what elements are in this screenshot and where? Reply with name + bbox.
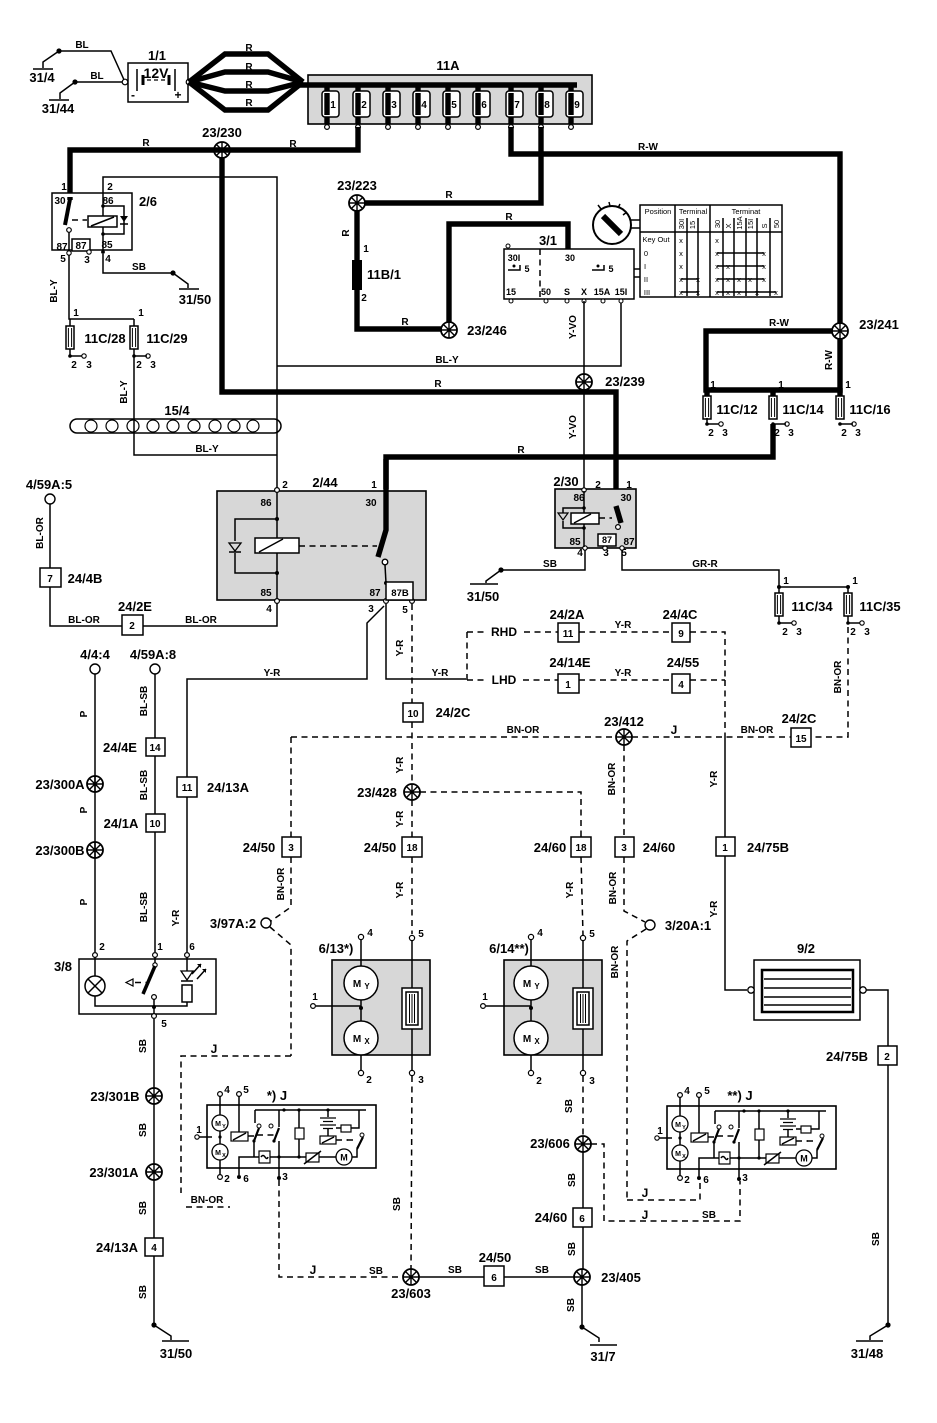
connector 24/75B 1: [716, 837, 789, 856]
svg-text:R-W: R-W: [638, 142, 659, 153]
svg-text:2/6: 2/6: [139, 194, 157, 209]
svg-text:RHD: RHD: [491, 625, 517, 639]
svg-text:31/44: 31/44: [42, 101, 75, 116]
svg-text:1: 1: [138, 308, 144, 319]
svg-text:x: x: [737, 275, 741, 284]
svg-text:23/300B: 23/300B: [35, 843, 84, 858]
svg-text:4: 4: [105, 254, 111, 265]
wire BL-OR to 24/4B: [50, 587, 122, 626]
svg-text:30: 30: [365, 498, 377, 509]
svg-text:Y-R: Y-R: [565, 881, 576, 898]
connector 24/13A 11: [177, 777, 250, 797]
svg-text:1: 1: [722, 843, 728, 854]
heated rear window 9/2: [748, 941, 866, 1020]
svg-text:1: 1: [845, 380, 851, 391]
svg-text:23/230: 23/230: [202, 125, 242, 140]
svg-text:23/428: 23/428: [357, 785, 397, 800]
ground 31/4: [29, 48, 61, 85]
connector 24/60 18: [534, 837, 591, 857]
svg-text:23/301B: 23/301B: [90, 1089, 139, 1104]
svg-text:J: J: [211, 1042, 218, 1056]
svg-text:23/603: 23/603: [391, 1286, 431, 1301]
svg-text:M: M: [523, 979, 531, 990]
node 23/241: [832, 323, 848, 339]
svg-text:3: 3: [788, 428, 794, 439]
svg-text:2: 2: [107, 182, 113, 193]
svg-text:6: 6: [491, 1273, 497, 1284]
svg-text:x: x: [715, 262, 719, 271]
node 23/230: [214, 142, 230, 158]
svg-text:87: 87: [623, 537, 635, 548]
connector 24/75B 2: [826, 1046, 897, 1065]
svg-text:24/60: 24/60: [643, 840, 676, 855]
svg-text:5: 5: [704, 1086, 710, 1097]
wire SB 23/603 to 24/50 6: [419, 1276, 484, 1278]
connector 24/13A 4: [96, 1238, 163, 1256]
mirror motor 6/14: [481, 928, 602, 1087]
svg-text:x: x: [679, 236, 683, 245]
svg-text:SB: SB: [702, 1210, 716, 1221]
svg-text:SB: SB: [448, 1265, 462, 1276]
svg-text:3: 3: [855, 428, 861, 439]
svg-text:31/50: 31/50: [467, 589, 500, 604]
svg-text:Key Out: Key Out: [642, 235, 670, 244]
svg-text:R: R: [245, 43, 253, 54]
svg-text:7: 7: [47, 574, 53, 585]
wire GR-R from 2/30 pin 5: [622, 550, 779, 587]
svg-text:SB: SB: [138, 1201, 149, 1215]
node 23/301A: [146, 1164, 162, 1180]
wire SB to 31/48: [887, 1065, 889, 1325]
wire SB 23/606 to 24/60 6: [582, 1152, 584, 1208]
svg-text:4: 4: [684, 1086, 690, 1097]
LHD dashed row: [467, 632, 558, 680]
wire SB to ground: [153, 1256, 155, 1325]
connector 24/2C 15: [782, 711, 817, 747]
svg-text:x: x: [696, 275, 700, 284]
terminal 3/97A:2: [261, 918, 271, 928]
ground 31/50 mid: [467, 567, 504, 604]
svg-text:24/55: 24/55: [667, 655, 700, 670]
svg-text:15/4: 15/4: [164, 403, 190, 418]
svg-text:SB: SB: [138, 1285, 149, 1299]
svg-text:15I: 15I: [615, 287, 628, 297]
connector 24/2E: [118, 599, 152, 635]
svg-text:BN-OR: BN-OR: [507, 725, 541, 736]
svg-text:BL-Y: BL-Y: [119, 380, 130, 404]
ignition key symbol: [593, 202, 640, 244]
svg-text:5: 5: [589, 929, 595, 940]
svg-text:1: 1: [157, 942, 163, 953]
wire R from 11B/1 to 23/246: [357, 288, 442, 329]
svg-text:3: 3: [391, 100, 397, 111]
fuse 11C/28: [66, 308, 126, 371]
terminal 4/59A:5: [45, 494, 55, 504]
dashed J from 23/606 to **)J pin 3: [591, 1144, 740, 1221]
wire R from 23/230 down to relay 2/30: [222, 157, 616, 506]
fuse 1: [322, 85, 339, 129]
svg-text:Y-R: Y-R: [264, 668, 281, 679]
svg-text:SB: SB: [392, 1197, 403, 1211]
svg-text:31/50: 31/50: [160, 1346, 193, 1361]
connector 24/60 6: [535, 1208, 592, 1227]
svg-text:23/223: 23/223: [337, 178, 377, 193]
svg-text:12V: 12V: [144, 65, 170, 81]
svg-text:30I: 30I: [508, 253, 521, 263]
svg-text:I: I: [644, 262, 646, 271]
wire Y-VO 23/239 to 2/30 pin 86: [583, 390, 585, 489]
svg-text:15: 15: [795, 734, 807, 745]
svg-text:1: 1: [710, 380, 716, 391]
svg-text:M: M: [353, 979, 361, 990]
connector 24/2A: [550, 607, 585, 642]
terminal 4/4:4: [90, 664, 100, 674]
wire R from 11C/14 to 2/44 pin 30: [386, 424, 773, 489]
fuse 2: [353, 85, 370, 129]
svg-text:2/30: 2/30: [553, 474, 578, 489]
battery 1/1: [122, 48, 192, 102]
wire SB: [153, 1180, 155, 1238]
svg-text:24/2A: 24/2A: [550, 607, 585, 622]
svg-text:4: 4: [678, 680, 684, 691]
svg-text:SB: SB: [567, 1242, 578, 1256]
svg-text:24/50: 24/50: [243, 840, 276, 855]
ground 31/50 top: [170, 270, 211, 307]
svg-text:R: R: [245, 80, 253, 91]
connector 24/50 6: [479, 1250, 512, 1286]
dashed J from BN-OR col to **)J pin 6: [627, 1181, 700, 1200]
node 23/412: [616, 729, 632, 745]
svg-text:BL-SB: BL-SB: [139, 770, 150, 801]
svg-text:11: 11: [563, 629, 574, 640]
svg-text:30: 30: [620, 493, 632, 504]
svg-text:4: 4: [151, 1243, 157, 1254]
svg-text:II: II: [644, 275, 648, 284]
svg-text:BL-Y: BL-Y: [435, 355, 459, 366]
svg-text:SB: SB: [567, 1173, 578, 1187]
svg-text:1: 1: [371, 480, 377, 491]
svg-text:11B/1: 11B/1: [367, 267, 401, 282]
svg-text:BL-SB: BL-SB: [139, 892, 150, 923]
svg-text:M: M: [523, 1034, 531, 1045]
svg-text:87: 87: [602, 535, 612, 545]
svg-text:1: 1: [565, 680, 571, 691]
svg-text:2: 2: [282, 480, 288, 491]
wire BL-OR to 4/59A:5: [49, 504, 51, 568]
svg-text:SB: SB: [566, 1298, 577, 1312]
dashed Y-R to 6/14 pin 5: [581, 857, 583, 935]
svg-text:BN-OR: BN-OR: [191, 1195, 225, 1206]
svg-text:5: 5: [418, 929, 424, 940]
svg-text:14: 14: [149, 743, 161, 754]
svg-text:R: R: [245, 62, 253, 73]
svg-text:24/13A: 24/13A: [207, 780, 250, 795]
svg-text:3: 3: [796, 627, 802, 638]
wire R-W 23/241 to 11C fuses: [706, 331, 840, 390]
svg-text:x: x: [762, 262, 766, 271]
3/8 switch: [126, 957, 157, 1016]
dashed SB from 6/13 pin 3 to 23/603: [411, 1076, 412, 1269]
svg-text:Y-R: Y-R: [615, 620, 632, 631]
relay 2/30: [553, 474, 636, 559]
svg-text:24/13A: 24/13A: [96, 1240, 139, 1255]
svg-text:3: 3: [722, 428, 728, 439]
connector 24/60 3: [615, 837, 675, 857]
svg-text:x: x: [774, 288, 778, 297]
svg-text:SB: SB: [535, 1265, 549, 1276]
connector strip 15/4: [70, 403, 281, 433]
dashed SB from 6/14 pin 3 to 23/606: [582, 1076, 584, 1136]
dashed BN-OR col to 24/50 3: [290, 737, 292, 837]
svg-text:SB: SB: [369, 1266, 383, 1277]
svg-text:2: 2: [224, 1174, 230, 1185]
ground 31/44: [42, 79, 78, 116]
3/8 pin 5: [152, 1014, 157, 1019]
svg-text:x: x: [679, 275, 683, 284]
dashed BN-OR to 3/20A:1: [624, 857, 645, 922]
fuse 11C/14: [769, 388, 824, 439]
relay 2/30 coil: [558, 491, 612, 547]
svg-text:10: 10: [149, 819, 161, 830]
svg-text:BL-OR: BL-OR: [35, 516, 46, 548]
svg-text:24/4B: 24/4B: [68, 571, 103, 586]
svg-text:1: 1: [783, 576, 789, 587]
svg-text:24/75B: 24/75B: [747, 840, 789, 855]
svg-text:R: R: [517, 445, 525, 456]
svg-text:23/300A: 23/300A: [35, 777, 85, 792]
wire SB from 2/30 pin 4: [501, 550, 585, 570]
svg-text:x: x: [679, 288, 683, 297]
svg-text:x: x: [715, 275, 719, 284]
svg-text:31/48: 31/48: [851, 1346, 884, 1361]
svg-text:R-W: R-W: [769, 318, 790, 329]
svg-text:85: 85: [569, 537, 581, 548]
dashed BN-OR to 3/97A:2: [271, 857, 291, 921]
relay 2/6: [52, 182, 157, 253]
svg-text:24/50: 24/50: [479, 1250, 512, 1265]
svg-text:x: x: [715, 249, 719, 258]
wire R from 23/246 to ignition switch 30: [449, 224, 568, 323]
svg-text:2: 2: [366, 1075, 372, 1086]
svg-text:23/246: 23/246: [467, 323, 507, 338]
svg-text:24/60: 24/60: [534, 840, 567, 855]
svg-text:Y-R: Y-R: [395, 881, 406, 898]
relay 2/44: [217, 475, 426, 616]
svg-text:2: 2: [71, 360, 77, 371]
svg-text:BL: BL: [90, 71, 103, 82]
wire from 9/2 to 24/75B 2: [866, 990, 888, 1046]
dashed J wire near 3/8: [181, 1056, 291, 1193]
svg-text:1: 1: [852, 576, 858, 587]
svg-text:X: X: [724, 223, 733, 228]
wire SB 23/405 to ground 31/7: [581, 1285, 583, 1327]
svg-text:11C/29: 11C/29: [146, 331, 187, 346]
wire Y-VO ignition X to 23/239: [583, 301, 585, 375]
svg-text:5: 5: [524, 264, 529, 274]
svg-text:3: 3: [86, 360, 92, 371]
svg-text:23/301A: 23/301A: [89, 1165, 139, 1180]
svg-text:III: III: [644, 288, 650, 297]
svg-text:6: 6: [579, 1214, 585, 1225]
svg-text:3/97A:2: 3/97A:2: [210, 916, 256, 931]
svg-text:11C/28: 11C/28: [84, 331, 125, 346]
svg-text:1: 1: [482, 992, 488, 1003]
svg-text:x: x: [726, 275, 730, 284]
fuse 11C/12: [703, 388, 758, 439]
svg-text:x: x: [679, 249, 683, 258]
svg-text:4/59A:8: 4/59A:8: [130, 647, 176, 662]
relay 2/6 coil: [88, 193, 128, 251]
ground 31/7: [579, 1324, 617, 1364]
svg-text:SB: SB: [132, 262, 146, 273]
svg-text:6/14**): 6/14**): [489, 941, 529, 956]
svg-text:5: 5: [608, 264, 613, 274]
svg-text:0: 0: [644, 249, 648, 258]
relay 2/44 coil: [229, 492, 377, 599]
svg-text:2: 2: [850, 627, 856, 638]
svg-text:31/7: 31/7: [590, 1349, 615, 1364]
svg-text:1: 1: [626, 480, 632, 491]
svg-text:BN-OR: BN-OR: [833, 660, 844, 694]
wire Y-R RHD: [579, 631, 672, 633]
svg-text:3: 3: [621, 843, 627, 854]
svg-text:SB: SB: [871, 1232, 882, 1246]
wire Y-R from 2/44 pin 3 left branch: [187, 606, 384, 777]
svg-text:-: -: [131, 88, 135, 102]
wire R-W from fuse 7 to 23/241: [511, 127, 840, 324]
svg-text:5: 5: [243, 1085, 249, 1096]
svg-text:87B: 87B: [391, 588, 409, 599]
relay 2/6 87 sub-box: [60, 239, 111, 266]
svg-text:R: R: [341, 229, 352, 237]
ground 31/48: [851, 1322, 891, 1361]
svg-text:9/2: 9/2: [797, 941, 815, 956]
wire BL-SB column: [154, 674, 156, 952]
svg-text:2: 2: [361, 100, 367, 111]
svg-text:9: 9: [678, 629, 684, 640]
svg-text:2: 2: [129, 621, 135, 632]
node 23/603: [403, 1269, 419, 1285]
svg-text:x: x: [762, 275, 766, 284]
svg-text:3: 3: [418, 1075, 424, 1086]
svg-text:3: 3: [742, 1173, 748, 1184]
svg-text:24/60: 24/60: [535, 1210, 568, 1225]
svg-text:11C/16: 11C/16: [849, 402, 890, 417]
svg-text:1: 1: [657, 1126, 663, 1137]
node 23/606: [575, 1136, 591, 1152]
mirror unit *) J: [195, 1085, 376, 1185]
svg-text:x: x: [696, 288, 700, 297]
node 23/300A: [87, 776, 103, 792]
svg-text:3/8: 3/8: [54, 959, 72, 974]
fuse 5: [443, 85, 460, 129]
svg-text:2: 2: [782, 627, 788, 638]
svg-text:BL-OR: BL-OR: [185, 615, 217, 626]
svg-text:R: R: [245, 98, 253, 109]
svg-text:11C/35: 11C/35: [859, 599, 900, 614]
svg-text:Terminal: Terminal: [679, 207, 708, 216]
svg-text:P: P: [79, 710, 90, 717]
svg-text:J: J: [310, 1263, 317, 1277]
svg-text:M: M: [353, 1034, 361, 1045]
3/8 lamp: [85, 957, 154, 1006]
svg-text:X: X: [534, 1037, 540, 1046]
svg-text:11A: 11A: [436, 58, 460, 73]
svg-text:x: x: [726, 288, 730, 297]
svg-text:3: 3: [368, 604, 374, 615]
svg-text:2/44: 2/44: [312, 475, 338, 490]
switch unit 3/8: [54, 942, 216, 1014]
svg-text:*) J: *) J: [267, 1088, 287, 1103]
fuse 4: [413, 85, 430, 129]
svg-text:Y: Y: [534, 982, 540, 991]
dashed BN-OR 23/412 to 24/2C 15: [632, 736, 791, 738]
svg-text:11C/14: 11C/14: [782, 402, 824, 417]
fuse 11C/35: [844, 587, 901, 638]
svg-text:5: 5: [60, 254, 66, 265]
svg-text:X: X: [581, 287, 587, 297]
svg-text:6: 6: [703, 1175, 709, 1186]
svg-text:Y-R: Y-R: [709, 900, 720, 917]
svg-text:1: 1: [73, 308, 79, 319]
dashed Y-R to 6/13 pin 5: [411, 857, 413, 934]
svg-text:R: R: [401, 317, 409, 328]
svg-text:BL-Y: BL-Y: [195, 444, 219, 455]
svg-text:8: 8: [544, 100, 550, 111]
node 23/223: [349, 195, 365, 211]
node 23/405: [574, 1269, 590, 1285]
wire BL-Y from 2/6 pin 5: [69, 255, 134, 319]
svg-text:30I: 30I: [677, 219, 686, 229]
svg-text:1: 1: [61, 182, 67, 193]
wire P column: [94, 674, 96, 952]
svg-text:x: x: [715, 236, 719, 245]
node 23/428: [404, 784, 420, 800]
svg-text:S: S: [760, 223, 769, 228]
ground 31/50 bottom: [151, 1322, 192, 1361]
svg-text:6/13*): 6/13*): [319, 941, 354, 956]
svg-text:15I: 15I: [746, 219, 755, 229]
svg-text:4: 4: [266, 604, 272, 615]
svg-text:x: x: [715, 288, 719, 297]
svg-text:BL-OR: BL-OR: [68, 615, 100, 626]
svg-text:15: 15: [688, 221, 697, 229]
svg-text:J: J: [642, 1186, 649, 1200]
svg-text:24/2C: 24/2C: [436, 705, 471, 720]
svg-text:11: 11: [182, 783, 193, 794]
svg-text:x: x: [737, 288, 741, 297]
relay 2/30 87 sub-box: [598, 534, 616, 546]
relay 2/44 87B sub-box: [386, 582, 413, 600]
dashed J from *)J pin 3 to 23/603: [279, 1180, 403, 1277]
svg-text:24/75B: 24/75B: [826, 1049, 868, 1064]
wire SB 3/8 to 23/301B: [153, 1019, 155, 1088]
3/8 LED: [154, 957, 206, 1006]
wire Y-R column down to 9/2: [725, 737, 747, 990]
svg-text:3: 3: [282, 1172, 288, 1183]
svg-text:24/1A: 24/1A: [104, 816, 139, 831]
svg-text:2: 2: [361, 293, 367, 304]
wire R bus from fuse 2 to relay 2/6: [70, 127, 358, 197]
svg-text:24/14E: 24/14E: [549, 655, 591, 670]
wire BL-Y from 11C/29 down through 15/4: [134, 349, 277, 455]
svg-text:18: 18: [575, 843, 587, 854]
mirror unit **) J: [655, 1086, 836, 1186]
RHD dashed row: [467, 631, 558, 633]
fuse 11B/1: [352, 260, 362, 290]
svg-text:R: R: [445, 190, 453, 201]
connector 24/14E: [549, 655, 591, 693]
